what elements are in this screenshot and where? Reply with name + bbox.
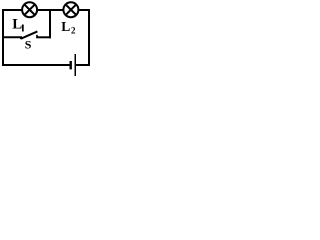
svg-text:2: 2	[71, 26, 76, 36]
svg-text:L: L	[61, 19, 70, 34]
svg-text:S: S	[25, 37, 32, 51]
svg-text:L: L	[12, 17, 22, 33]
